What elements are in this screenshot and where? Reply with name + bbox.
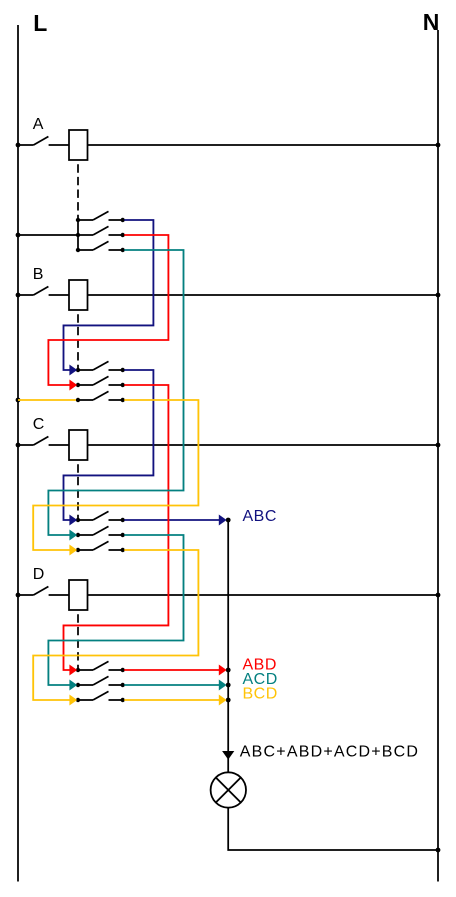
wire blue A1 to B1 — [64, 220, 154, 370]
arrow teal ACD — [219, 680, 227, 691]
node bus BCD — [226, 698, 231, 703]
node bus ABD — [226, 668, 231, 673]
arrow teal into D2 — [69, 680, 77, 691]
arrow red ABD — [219, 665, 227, 676]
coil D — [69, 580, 88, 610]
node row B at N — [436, 293, 441, 298]
wire lamp to bottom — [228, 808, 438, 851]
rail L — [17, 25, 19, 882]
contact B1 — [76, 361, 125, 372]
node row C at N — [436, 443, 441, 448]
arrow teal into C2 — [69, 530, 77, 541]
wire red A2 to B2 — [48, 235, 168, 385]
lamp X1 — [211, 772, 246, 807]
contact C3 — [76, 541, 125, 552]
arrow blue into C1 — [69, 515, 77, 526]
arrow blue ABC — [219, 515, 227, 526]
wire teal ACD output — [124, 684, 219, 686]
dashed link coil A — [77, 160, 79, 220]
coil A — [69, 130, 88, 160]
coil B — [69, 280, 88, 310]
svg-text:ABC: ABC — [243, 508, 277, 525]
node bus ACD — [226, 683, 231, 688]
node row D at L — [16, 593, 21, 598]
rail N — [437, 30, 439, 882]
switch D — [18, 587, 69, 596]
svg-text:B: B — [33, 266, 44, 283]
contact A1 — [76, 211, 125, 222]
svg-text:N: N — [423, 9, 440, 35]
output bus ABC+ABD+ACD+BCD — [227, 520, 229, 773]
wire red B2 to D1 — [64, 385, 169, 670]
wire teal A3 to C2 — [48, 250, 183, 535]
svg-text:ABC+ABD+ACD+BCD: ABC+ABD+ACD+BCD — [240, 744, 419, 761]
dashed link coil D — [77, 610, 79, 670]
contact C1 — [76, 511, 125, 522]
wire row A to N — [88, 144, 439, 146]
wire row B to N — [88, 294, 439, 296]
node row C at L — [16, 443, 21, 448]
node feed at L — [16, 233, 21, 238]
wire feed group1 — [18, 234, 78, 236]
arrow blue into B1 — [69, 365, 77, 376]
switch A — [18, 137, 69, 146]
wire blue B1 to C1 — [64, 370, 154, 520]
switch C — [18, 437, 69, 446]
wire row C to N — [88, 444, 439, 446]
dashed link coil B — [77, 310, 79, 370]
node row A at L — [16, 143, 21, 148]
wire yellow C3 to D3 — [33, 550, 198, 700]
node row B at L — [16, 293, 21, 298]
arrow down to lamp — [222, 751, 234, 760]
node yellow feed at L — [16, 398, 21, 403]
svg-text:C: C — [33, 416, 45, 433]
contact A3 — [76, 241, 125, 252]
switch B — [18, 287, 69, 296]
contact C2 — [76, 526, 125, 537]
wire blue ABC output — [124, 519, 219, 521]
dashed link coil C — [77, 460, 79, 520]
arrow red into B2 — [69, 380, 77, 391]
svg-text:D: D — [33, 566, 45, 583]
contact B2 — [76, 376, 125, 387]
node bus top ABC — [226, 518, 231, 523]
wire yellow B3 to C3 — [33, 400, 198, 550]
wire yellow BCD output — [124, 699, 219, 701]
svg-text:BCD: BCD — [243, 686, 278, 703]
wire red ABD output — [124, 669, 219, 671]
arrow yellow into C3 — [69, 545, 77, 556]
node row D at N — [436, 593, 441, 598]
arrow yellow BCD — [219, 695, 227, 706]
bus group1 — [77, 220, 79, 250]
node row A at N — [436, 143, 441, 148]
arrow yellow into D3 — [69, 695, 77, 706]
wire row D to N — [88, 594, 439, 596]
wire teal C2 to D2 — [48, 535, 183, 685]
node bottom at N — [436, 848, 441, 853]
contact A2 — [76, 226, 125, 237]
wire yellow L to B3 — [18, 399, 76, 401]
arrow red into D1 — [69, 665, 77, 676]
contact B3 — [76, 391, 125, 402]
contact D2 — [76, 676, 125, 687]
contact D1 — [76, 661, 125, 672]
coil C — [69, 430, 88, 460]
svg-text:L: L — [33, 10, 47, 36]
contact D3 — [76, 691, 125, 702]
svg-text:A: A — [33, 116, 44, 133]
